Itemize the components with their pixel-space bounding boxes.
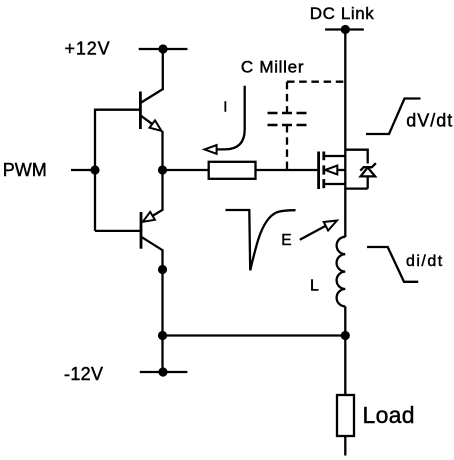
wire C Miller dashed top [287, 81, 345, 83]
wire Q1 base lead [95, 109, 140, 111]
wire C Miller dashed to gate [286, 125, 288, 170]
wire M1 body lead with arrow [337, 169, 346, 171]
wire M1 drain lead [325, 155, 345, 157]
wire Q1 emitter [141, 116, 152, 124]
node driver output junction [158, 165, 167, 174]
waveform di/dt ramp [367, 247, 418, 282]
node DC Link junction [341, 25, 350, 34]
wire PWM lead [71, 169, 95, 171]
mosfet M1 channel segments [322, 152, 325, 161]
transistor Q2 (PNP) [140, 212, 143, 249]
node Q2 collector junction [158, 265, 167, 274]
inductor L [337, 237, 346, 307]
arrow E (pointing to source node) [300, 225, 327, 239]
svg-text:DC Link: DC Link [310, 4, 375, 23]
wire below load [344, 436, 346, 456]
node load junction [341, 331, 350, 340]
svg-text:PWM: PWM [3, 160, 47, 180]
svg-text:di/dt: di/dt [406, 253, 443, 270]
wire M1 source lead [325, 183, 345, 185]
svg-text:I: I [223, 98, 227, 115]
waveform dV/dt ramp [366, 99, 421, 135]
svg-text:C Miller: C Miller [241, 57, 304, 76]
wire gate line left [163, 169, 209, 171]
wire left vertical (bases) [94, 109, 96, 231]
svg-text:dV/dt: dV/dt [406, 111, 452, 131]
wire Q2 base lead [95, 230, 140, 232]
wire body diode branch top [345, 150, 367, 164]
resistor Rg [209, 162, 256, 179]
DC Link rail [325, 28, 364, 30]
transistor Q1 (NPN) [139, 92, 142, 130]
+12V rail [139, 48, 188, 50]
wire middle vertical to -12V [161, 270, 163, 373]
wire bottom horizontal [163, 334, 346, 336]
wire gate line right [256, 169, 318, 171]
mosfet M1 gate bar [317, 152, 320, 190]
waveform E spike [226, 210, 296, 270]
wire C Miller dashed drop [286, 82, 288, 113]
capacitor C Miller bottom plate [268, 124, 307, 126]
node PWM-base junction [90, 165, 99, 174]
svg-text:+12V: +12V [65, 38, 110, 58]
wire Q2 emitter [153, 170, 163, 216]
arrow I (gate current, curved) [216, 86, 245, 150]
svg-text:L: L [310, 277, 319, 294]
svg-text:-12V: -12V [64, 364, 103, 384]
node -12V junction [158, 367, 167, 376]
wire source to load [344, 306, 346, 395]
node bottom rail junction [158, 331, 167, 340]
wire drain vertical [344, 30, 346, 238]
svg-text:Load: Load [363, 402, 415, 428]
wire body diode branch bottom [345, 176, 367, 188]
-12V rail [140, 371, 188, 373]
node +12V junction [158, 44, 167, 53]
resistor Load [337, 395, 354, 436]
wire Q2 collector [142, 237, 163, 269]
capacitor C Miller top plate [268, 112, 307, 114]
wire emitter to PWM node [161, 131, 163, 170]
svg-text:E: E [281, 232, 291, 249]
wire NPN collector [141, 49, 163, 103]
diode D1 (body diode, zener-style bar) [360, 163, 376, 171]
